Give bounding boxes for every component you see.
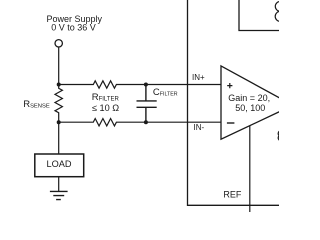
svg-text:CFILTER: CFILTER — [153, 87, 178, 98]
svg-text:0 V to 36 V: 0 V to 36 V — [51, 23, 96, 33]
svg-text:IN+: IN+ — [192, 73, 205, 82]
svg-text:50, 100: 50, 100 — [235, 103, 265, 113]
svg-text:≤ 10 Ω: ≤ 10 Ω — [92, 103, 119, 113]
svg-text:Gain = 20,: Gain = 20, — [228, 93, 270, 103]
svg-text:IN-: IN- — [194, 123, 205, 132]
svg-text:REF: REF — [223, 189, 242, 199]
svg-text:LOAD: LOAD — [46, 159, 71, 169]
svg-text:RFILTER: RFILTER — [92, 92, 120, 103]
svg-text:RSENSE: RSENSE — [23, 99, 50, 110]
